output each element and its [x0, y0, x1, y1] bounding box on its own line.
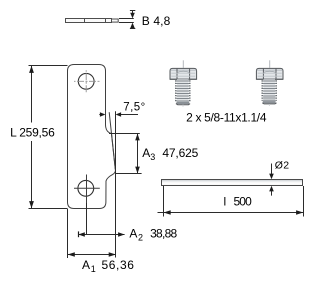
- label A2: [129, 227, 143, 243]
- angle dimension arrow right side: [116, 112, 138, 116]
- svg-text:B 4,8: B 4,8: [142, 14, 171, 28]
- svg-text:1: 1: [91, 264, 96, 274]
- dimension l dimension line: [158, 212, 304, 214]
- dimension A2 tick: [78, 231, 80, 237]
- dimension A1 left extension line: [67, 209, 69, 258]
- top hole centerlines: [74, 70, 100, 93]
- bend edge slant reference line: [109, 112, 115, 169]
- dimension A3 dimension line: [137, 134, 139, 174]
- bottom hole centerlines: [74, 175, 100, 204]
- dimension A1 dimension line: [68, 254, 116, 256]
- bolt 2: [256, 60, 283, 106]
- svg-text:A: A: [129, 227, 137, 241]
- svg-text:47,625: 47,625: [162, 146, 198, 160]
- svg-text:7,5°: 7,5°: [123, 102, 145, 114]
- svg-text:500: 500: [234, 194, 253, 208]
- dimension A2 dimension line: [78, 234, 124, 236]
- dimension l extension lines: [164, 186, 304, 217]
- bottom hole centerline extension to A2: [86, 203, 88, 234]
- rod side view: [162, 180, 303, 186]
- svg-text:2: 2: [283, 159, 289, 171]
- dimension A3 extension lines: [109, 134, 142, 174]
- dimension B extension lines: [119, 19, 134, 23]
- diameter 2 upper arrow: [269, 164, 274, 180]
- angle dimension arrow left side: [99, 112, 105, 116]
- dimension B arrowheads: [130, 13, 135, 28]
- svg-text:A: A: [82, 258, 90, 272]
- svg-text:A: A: [142, 146, 150, 160]
- svg-text:2: 2: [138, 233, 143, 243]
- svg-text:56,36: 56,36: [102, 258, 135, 272]
- label l 500: [224, 194, 253, 208]
- bottom hole: [78, 180, 94, 196]
- label A1: [82, 258, 96, 274]
- bracket front view outline: [68, 65, 116, 209]
- svg-text:l: l: [224, 194, 227, 208]
- dimension A2 arrowheads: [78, 232, 124, 237]
- svg-text:2 x 5/8-11x1.1/4: 2 x 5/8-11x1.1/4: [186, 111, 267, 125]
- top hole: [78, 73, 94, 89]
- label A3: [142, 146, 155, 162]
- dimension A1 arrowheads: [68, 252, 116, 257]
- flat bar side view (thickness B): [66, 19, 119, 23]
- label diameter 2: [275, 159, 290, 171]
- bend vertical reference line: [115, 111, 117, 257]
- dimension l arrowheads: [164, 210, 304, 215]
- dimension B dimension line with ticks: [130, 11, 135, 29]
- svg-text:38,88: 38,88: [150, 227, 177, 241]
- dimension A3 arrowheads: [135, 134, 140, 174]
- svg-text:L 259,56: L 259,56: [10, 126, 55, 140]
- dimension L arrowheads: [29, 66, 34, 209]
- bolt 1: [170, 60, 197, 106]
- diameter 2 lower arrow: [269, 186, 274, 196]
- svg-text:3: 3: [150, 152, 155, 162]
- dimension L dimension line: [31, 66, 33, 209]
- svg-text:Ø: Ø: [275, 159, 283, 171]
- dimension L extension lines: [29, 66, 68, 209]
